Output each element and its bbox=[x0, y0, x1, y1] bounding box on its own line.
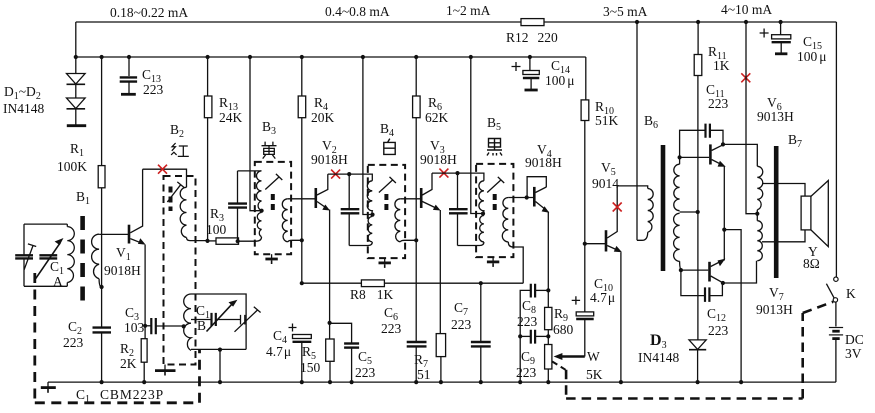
node V5 base / R10 / C10 bbox=[583, 242, 587, 246]
svg-text:IN4148: IN4148 bbox=[638, 350, 679, 365]
SEC_B4V3 bbox=[341, 57, 484, 382]
svg-text:4.7μ: 4.7μ bbox=[266, 344, 291, 359]
svg-text:103: 103 bbox=[124, 320, 145, 335]
node B3 tap bbox=[260, 209, 264, 213]
capacitor C8 bbox=[535, 289, 548, 291]
transformer B3 shield box (dashed) bbox=[255, 162, 291, 254]
svg-text:680: 680 bbox=[553, 322, 574, 337]
ground B2 shield bbox=[164, 365, 166, 371]
svg-text:B: B bbox=[197, 318, 206, 333]
inductor B1 primary winding bbox=[67, 227, 74, 283]
svg-text:9014: 9014 bbox=[592, 176, 619, 191]
inductor B2 secondary winding bbox=[184, 294, 191, 350]
SEC_V1 bbox=[104, 165, 187, 382]
node B7 center tap bbox=[755, 212, 759, 216]
potentiometer W 5K volume bbox=[545, 345, 552, 370]
node V4 base junction bbox=[525, 195, 529, 199]
svg-text:51: 51 bbox=[417, 367, 431, 382]
node V6/V7 emitter junction bbox=[722, 228, 726, 232]
svg-text:3~5 mA: 3~5 mA bbox=[603, 4, 648, 19]
transistor V4 9018H detector bbox=[533, 187, 536, 207]
label black (Chinese) bbox=[487, 139, 502, 156]
resistor R1 bbox=[101, 57, 103, 166]
SEC_B2 bbox=[155, 57, 261, 382]
wire emitters to ground rail bbox=[724, 230, 741, 383]
resistor R2 bbox=[141, 339, 147, 363]
transformer B5 shield box (dashed) bbox=[476, 164, 513, 257]
svg-text:8Ω: 8Ω bbox=[803, 256, 820, 271]
resistor R4 bbox=[301, 57, 303, 96]
wire B4 secondary bottom to R6 column bbox=[400, 240, 416, 242]
switch link dash from W bbox=[552, 362, 565, 370]
node B4 tap bbox=[370, 213, 374, 217]
label yellow (Chinese) bbox=[262, 142, 277, 159]
svg-text:223: 223 bbox=[516, 365, 537, 380]
wire V6 collector to B7 top bbox=[723, 144, 757, 166]
svg-text:150: 150 bbox=[300, 360, 321, 375]
red x measure point V2 bbox=[331, 170, 340, 179]
wire V2 collector to B4 tank top bbox=[328, 174, 373, 181]
transistor V2 9018H bbox=[314, 188, 317, 208]
core B7 bbox=[774, 146, 779, 278]
resistor R7 bbox=[436, 334, 445, 357]
battery DC 3V bbox=[835, 302, 837, 326]
capacitor C12 bbox=[681, 270, 705, 296]
core B2 adjustable (dashes) bbox=[169, 187, 173, 212]
svg-text:20K: 20K bbox=[311, 110, 335, 125]
wire C1B to ground rail bbox=[219, 349, 221, 382]
red x measure point V1 bbox=[158, 165, 167, 174]
transistor V3 9018H bbox=[420, 188, 423, 208]
capacitor C2 bbox=[93, 326, 112, 328]
resistor R11 bbox=[697, 22, 699, 55]
SEC_B5V4 bbox=[449, 57, 562, 382]
svg-text:9013H: 9013H bbox=[756, 302, 793, 317]
adjuster arrow B5 bbox=[487, 177, 504, 193]
inductor B6 secondary lower winding bbox=[674, 213, 680, 261]
wire B+ feed to B4 tap bbox=[363, 57, 373, 215]
resistor R9 bbox=[547, 290, 549, 307]
node R4 / B3 secondary junction bbox=[300, 238, 304, 242]
svg-text:9018H: 9018H bbox=[311, 152, 348, 167]
node R1-C2-B1 junction bbox=[100, 285, 104, 289]
resistor R6 bbox=[415, 57, 417, 96]
diode D1 bbox=[75, 57, 77, 74]
transistor V7 9013H bbox=[708, 262, 711, 282]
svg-text:9018H: 9018H bbox=[420, 152, 457, 167]
svg-text:9018H: 9018H bbox=[525, 155, 562, 170]
svg-text:223: 223 bbox=[708, 96, 729, 111]
transformer B4 shield box (dashed) bbox=[368, 165, 405, 258]
inductor B5 secondary winding bbox=[502, 198, 508, 242]
diode D3 bbox=[689, 340, 706, 350]
switch K bbox=[835, 22, 837, 277]
svg-text:223: 223 bbox=[451, 317, 472, 332]
svg-text:223: 223 bbox=[143, 82, 164, 97]
transformer B2 shield box (dashed) bbox=[164, 176, 196, 365]
node AGC / C7 junction bbox=[479, 281, 483, 285]
inductor B6 primary winding bbox=[648, 189, 654, 233]
svg-text:9018H: 9018H bbox=[104, 263, 141, 278]
inductor B7 primary upper winding bbox=[757, 166, 763, 210]
node top rail junction dots bbox=[635, 20, 639, 24]
svg-text:DC: DC bbox=[845, 332, 864, 347]
node C1B bottom junction bbox=[218, 348, 222, 352]
svg-text:62K: 62K bbox=[425, 110, 449, 125]
wire top supply rail right of R12 bbox=[544, 21, 836, 23]
svg-text:24K: 24K bbox=[219, 110, 243, 125]
svg-text:0.18~0.22 mA: 0.18~0.22 mA bbox=[110, 5, 188, 20]
core B6 bbox=[661, 145, 666, 271]
SEC_RIGHT bbox=[755, 22, 864, 382]
node B5 tap bbox=[481, 212, 485, 216]
capacitor C15 electrolytic bbox=[780, 22, 782, 35]
svg-text:2K: 2K bbox=[120, 356, 137, 371]
core B4 adjustable (dashes) bbox=[384, 194, 388, 214]
wire V5 collector to B6 primary top bbox=[617, 186, 648, 189]
svg-text:0.4~0.8 mA: 0.4~0.8 mA bbox=[325, 4, 390, 19]
svg-text:223: 223 bbox=[381, 321, 402, 336]
inductor B1 secondary winding bbox=[92, 234, 100, 279]
svg-text:W: W bbox=[587, 349, 600, 364]
adjuster arrow B4 bbox=[379, 177, 396, 193]
resistor R5 bbox=[329, 323, 331, 339]
inductor B5 primary winding bbox=[479, 181, 484, 214]
svg-text:1~2 mA: 1~2 mA bbox=[446, 3, 491, 18]
wire B+ feed to B6 primary bottom bbox=[636, 22, 638, 240]
inductor B2 primary winding bbox=[180, 187, 186, 237]
wire V1 collector to B2 top bbox=[143, 169, 187, 187]
capacitor C3 bbox=[145, 325, 151, 327]
svg-text:223: 223 bbox=[517, 314, 538, 329]
ground B5 shield bbox=[492, 257, 494, 262]
wire B1 secondary top to V1 base bbox=[99, 233, 129, 235]
wire V7 collector to B7 bottom bbox=[723, 261, 757, 283]
wire B3 primary bottom bbox=[239, 237, 262, 241]
inductor B7 primary lower winding bbox=[757, 221, 762, 261]
SEC_LEFT bbox=[3, 57, 164, 382]
node B4 tank cap top bbox=[347, 172, 351, 176]
svg-text:100: 100 bbox=[206, 222, 227, 237]
resistor R3 bbox=[208, 240, 217, 242]
node B2/R13/R3 junction bbox=[205, 239, 209, 243]
svg-text:9013H: 9013H bbox=[757, 109, 794, 124]
node ground rail dots bbox=[100, 380, 104, 384]
svg-text:A: A bbox=[53, 274, 63, 289]
wire left drop from top rail to 1.3V rail bbox=[75, 22, 77, 57]
capacitor C13 bbox=[128, 57, 130, 76]
svg-text:4.7μ: 4.7μ bbox=[590, 290, 615, 305]
svg-text:IN4148: IN4148 bbox=[3, 101, 44, 116]
node rail junction dots bbox=[74, 55, 78, 59]
inductor B3 secondary winding bbox=[282, 199, 287, 242]
svg-text:1K: 1K bbox=[713, 58, 730, 73]
svg-text:223: 223 bbox=[63, 335, 84, 350]
wire B3 secondary bottom to R4 column bbox=[288, 240, 302, 242]
resistor R8 bbox=[302, 282, 362, 284]
capacitor B3 internal resonating bbox=[237, 171, 239, 203]
SEC_OUT bbox=[638, 22, 794, 382]
node B5 tank cap top bbox=[455, 171, 459, 175]
wire 1.3V rail bbox=[76, 56, 586, 58]
label red (Chinese) bbox=[171, 143, 189, 156]
core B3 adjustable (dashes) bbox=[271, 194, 275, 214]
capacitor B4 internal resonating bbox=[348, 174, 350, 209]
svg-text:4~10 mA: 4~10 mA bbox=[721, 2, 772, 17]
resistor R12 bbox=[521, 19, 544, 26]
node R6 / B4 secondary junction bbox=[414, 238, 418, 242]
wire B6 secondary top to V6 base bbox=[679, 157, 681, 164]
resistor R10 bbox=[585, 57, 587, 100]
adjuster arrow B2 bbox=[167, 182, 184, 202]
wire B6 secondary bottom to V7 base bbox=[680, 261, 682, 270]
capacitor C9 bbox=[535, 335, 548, 337]
gang link dashed C1 bbox=[35, 273, 200, 403]
core B5 adjustable (dashes) bbox=[493, 194, 497, 214]
svg-text:223: 223 bbox=[355, 365, 376, 380]
SEC_TOP bbox=[74, 2, 837, 90]
ground chassis symbol left bbox=[47, 382, 49, 387]
svg-text:51K: 51K bbox=[595, 113, 619, 128]
node R9 bottom / C9 bbox=[546, 334, 550, 338]
wire B7 secondary to speaker bbox=[762, 184, 805, 197]
node V1 emitter / C3 / R2 junction bbox=[143, 324, 147, 328]
node B3 tank bottom / R3 bbox=[236, 239, 240, 243]
wire B+ feed to B7 center tap bbox=[746, 22, 757, 214]
label white (Chinese) bbox=[384, 139, 395, 155]
switch link dashed W to K bbox=[566, 302, 833, 399]
capacitor C1-A variable (tuning gang section A) bbox=[24, 224, 67, 286]
capacitor C11 bbox=[680, 130, 706, 157]
wire B3 secondary top to V2 base bbox=[288, 198, 316, 200]
svg-text:5K: 5K bbox=[586, 367, 603, 382]
node V4 emitter / C8 / R9 bbox=[546, 288, 550, 292]
speaker Y bbox=[801, 196, 811, 230]
capacitor C14 electrolytic bbox=[529, 57, 531, 71]
svg-text:100μ: 100μ bbox=[545, 73, 575, 88]
inductor B4 primary winding bbox=[367, 181, 372, 215]
wire V3 collector to B5 tank top bbox=[432, 173, 484, 181]
capacitor C7 bbox=[480, 283, 482, 341]
inductor B4 secondary winding bbox=[395, 199, 400, 242]
ferrite core B1 (dashed bar) bbox=[80, 216, 85, 303]
capacitor C4 electrolytic bbox=[300, 281, 304, 285]
transistor V1 9018H bbox=[128, 225, 131, 244]
wire B6 primary bottom bbox=[637, 232, 648, 240]
svg-text:223: 223 bbox=[708, 323, 729, 338]
resistor R13 bbox=[207, 57, 209, 96]
capacitor B5 internal resonating bbox=[457, 173, 459, 209]
node V2 emitter junction bbox=[328, 321, 332, 325]
svg-text:100μ: 100μ bbox=[797, 49, 827, 64]
inductor B3 primary winding bbox=[257, 171, 262, 211]
capacitor C5 bbox=[330, 323, 352, 343]
wire B2 primary bottom to R13/R3 node bbox=[187, 238, 208, 241]
wire top supply rail left of R12 bbox=[76, 21, 521, 23]
wire B6 center tap to bias column bbox=[680, 211, 698, 213]
transistor V6 9013H bbox=[709, 144, 712, 164]
ground B3 shield bbox=[271, 254, 273, 259]
transistor V5 9014 bbox=[585, 243, 605, 245]
wire B4 tank bottom bbox=[349, 242, 372, 246]
svg-text:100K: 100K bbox=[57, 159, 87, 174]
wire B5 secondary bottom to AGC line bbox=[508, 242, 523, 283]
SEC_DET bbox=[516, 244, 615, 382]
svg-text:3V: 3V bbox=[845, 346, 862, 361]
capacitor C1-B variable (tuning gang section B) bbox=[191, 294, 246, 349]
SEC_BOTTOM bbox=[35, 273, 836, 405]
capacitor C10 electrolytic coupling bbox=[584, 244, 586, 312]
inductor B6 secondary upper winding bbox=[674, 164, 680, 211]
SEC_V5B6 bbox=[581, 22, 709, 382]
wire B4 secondary top to V3 base bbox=[400, 198, 421, 200]
ground B4 shield bbox=[384, 258, 386, 263]
SEC_B3V2 bbox=[228, 57, 523, 382]
capacitor C6 bbox=[407, 341, 427, 343]
wire B1 secondary bottom to R1/C2 node bbox=[99, 279, 102, 287]
red x measure point V5 bbox=[613, 203, 622, 212]
red x measure point V6 feed bbox=[741, 73, 750, 82]
wire B5 tank bottom bbox=[458, 242, 484, 246]
adjuster arrow B3 bbox=[265, 174, 282, 190]
red x measure point V3 bbox=[439, 169, 448, 178]
wire B3 tank top bbox=[238, 170, 262, 172]
svg-text:K: K bbox=[846, 286, 856, 301]
wire B+ feed to B3 tap bbox=[250, 57, 262, 211]
diode D2 bbox=[75, 84, 77, 98]
wire B5 secondary top to V4 base bbox=[508, 197, 533, 199]
wire B+ feed to B5 tap bbox=[471, 57, 483, 214]
wire ground rail bbox=[48, 381, 836, 383]
